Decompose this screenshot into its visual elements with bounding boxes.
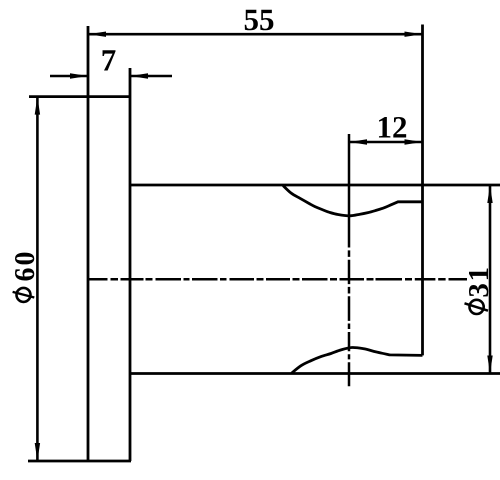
dimension text Phi31: phi bar: [465, 303, 489, 310]
arrow Phi60 top: [35, 97, 40, 115]
dimension text Phi60: phi circle: [17, 288, 31, 302]
arrow 55 left: [88, 32, 106, 37]
svg-text:1: 1: [463, 267, 495, 282]
dimension 55 line: [88, 33, 423, 36]
arrow Phi60 bottom: [35, 443, 40, 461]
arrow 7 right: [130, 73, 148, 78]
svg-text:3: 3: [463, 283, 495, 298]
svg-text:7: 7: [101, 42, 117, 77]
flange left edge + extension line: [87, 26, 90, 461]
arrow Phi31 top: [487, 185, 492, 203]
dimension 7 left leader: [50, 75, 88, 78]
svg-text:55: 55: [243, 2, 274, 37]
right end face + extension line: [421, 25, 424, 356]
dimension Phi60 line: [36, 97, 39, 461]
dimension text Phi60: phi bar: [13, 292, 35, 298]
dimension 7 right leader: [130, 75, 172, 78]
dimension 12 line: [349, 141, 423, 144]
arrow 12 left: [349, 139, 367, 144]
vertical center line of groove: [348, 134, 351, 386]
horizontal center line: [88, 278, 467, 281]
flange bottom edge + Phi60 extension: [28, 460, 131, 463]
dimension Phi31 line: [489, 185, 492, 374]
svg-text:12: 12: [376, 109, 407, 144]
arrow 55 right: [405, 32, 423, 37]
body top edge + Phi31 extension: [129, 184, 500, 187]
flange top edge + Phi60 extension: [29, 95, 131, 98]
dimension text Phi31: phi circle: [470, 300, 484, 314]
body bottom edge + Phi31 extension: [129, 372, 500, 375]
flange right edge + extension line: [129, 68, 132, 461]
arrow 7 left: [70, 73, 88, 78]
svg-text:60: 60: [10, 250, 41, 282]
arrow Phi31 bottom: [487, 356, 492, 374]
top groove curve: [283, 186, 423, 216]
arrow 12 right: [405, 139, 423, 144]
bottom groove curve: [292, 347, 423, 373]
